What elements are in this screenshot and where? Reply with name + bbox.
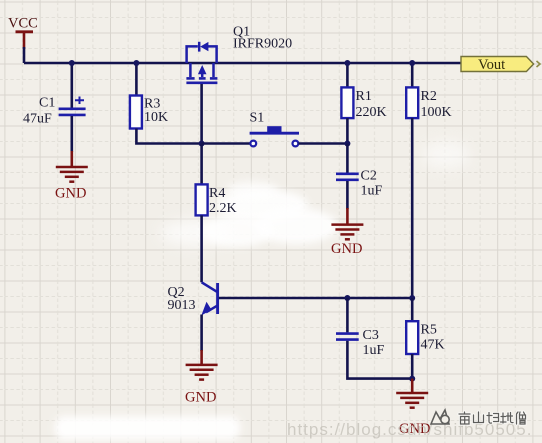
capacitor C2 — [336, 169, 383, 199]
svg-text:R5: R5 — [421, 322, 437, 337]
wire R4 bottom to Q2 collector — [200, 215, 203, 282]
wire C1 top drop — [71, 63, 74, 108]
node junction R2/rail — [409, 60, 415, 66]
watermark logo text (hand-drawn CJK strokes) — [459, 412, 526, 424]
wire R5 top drop — [411, 298, 414, 321]
svg-text:IRFR9020: IRFR9020 — [233, 37, 292, 52]
svg-text:VCC: VCC — [8, 16, 38, 32]
wire S1 right to C2 node — [299, 142, 348, 145]
svg-text:9013: 9013 — [168, 298, 196, 313]
ground GND under Q2 — [185, 350, 218, 406]
resistor R4 — [196, 184, 237, 216]
node junction R3/rail — [133, 60, 139, 66]
svg-text:C3: C3 — [363, 328, 379, 343]
svg-text:GND: GND — [55, 186, 86, 202]
ground GND under R5 — [396, 379, 430, 437]
capacitor C1 — [23, 96, 86, 127]
wire C1 bottom — [71, 116, 74, 152]
svg-text:1uF: 1uF — [363, 343, 385, 358]
power flag VCC — [8, 16, 38, 50]
wire C2 bottom — [346, 181, 349, 209]
wire Q2 base to R5 node — [219, 297, 412, 300]
watermark erased smear center — [160, 141, 470, 247]
wire R1 top drop — [346, 63, 349, 88]
wire C3 bottom to R5 bottom node — [347, 341, 412, 379]
ground GND under C1 — [55, 151, 88, 202]
svg-text:R2: R2 — [421, 89, 437, 104]
svg-text:GND: GND — [185, 390, 216, 406]
svg-text:10K: 10K — [144, 110, 168, 125]
node junction gate/R3/S1/R4 — [199, 141, 205, 147]
transistor Q1 (P-MOSFET IRFR9020) — [186, 24, 292, 83]
wire gate node to S1 left — [202, 142, 251, 145]
svg-text:GND: GND — [331, 241, 362, 257]
svg-text:S1: S1 — [250, 110, 265, 125]
port Vout — [461, 57, 540, 74]
wire R2 bottom to base node — [411, 118, 414, 298]
wire R3 top drop — [135, 63, 138, 96]
wire R5 bottom — [411, 354, 414, 380]
node junction R5/C3 bottom — [409, 376, 415, 382]
wire C3 top drop — [346, 298, 349, 332]
wire R3 bottom to gate node — [136, 129, 201, 144]
transistor Q2 (NPN 9013) — [168, 282, 218, 315]
resistor R2 — [406, 87, 451, 120]
svg-text:220K: 220K — [356, 105, 387, 120]
svg-text:2.2K: 2.2K — [209, 201, 237, 216]
svg-text:100K: 100K — [421, 105, 452, 120]
wire Q1 gate drop — [200, 84, 203, 144]
node junction R1/rail — [344, 60, 350, 66]
svg-text:C2: C2 — [361, 169, 377, 184]
watermark logo icon — [431, 410, 449, 424]
node junction base/C3 — [344, 295, 350, 301]
resistor R3 — [130, 96, 168, 129]
wire Q2 emitter down — [200, 315, 203, 352]
watermark erased smear bottom band — [55, 416, 240, 440]
node junction base/R2/R5 — [409, 295, 415, 301]
svg-text:47uF: 47uF — [23, 112, 52, 127]
svg-text:47K: 47K — [421, 338, 445, 353]
wire main VCC rail — [24, 62, 461, 65]
svg-text:C1: C1 — [39, 96, 55, 111]
wire VCC stub — [23, 47, 26, 63]
node junction C1/rail — [69, 60, 75, 66]
ground GND under C2 — [331, 208, 363, 257]
resistor R1 — [341, 87, 386, 120]
wire C2 top drop — [346, 144, 349, 173]
svg-text:R1: R1 — [356, 89, 372, 104]
node junction S1/R1/C2 — [344, 141, 350, 147]
switch S1 — [250, 110, 300, 146]
capacitor C3 — [336, 328, 385, 358]
svg-text:R4: R4 — [209, 186, 225, 201]
wire R2 top drop — [411, 63, 414, 88]
svg-text:Vout: Vout — [478, 57, 505, 73]
wire gate node to R4 — [200, 144, 203, 185]
wire R1 bottom to C2 node — [346, 118, 349, 144]
resistor R5 — [406, 321, 444, 354]
svg-text:1uF: 1uF — [361, 184, 383, 199]
